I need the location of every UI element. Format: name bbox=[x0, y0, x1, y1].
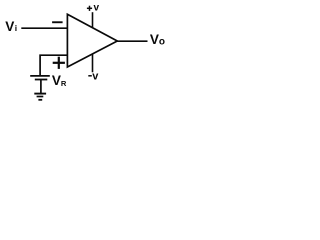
ground symbol bbox=[34, 93, 46, 95]
wire battery to ground bbox=[40, 80, 42, 94]
label -v bbox=[88, 75, 92, 77]
svg-text:o: o bbox=[159, 36, 165, 47]
battery VR top plate bbox=[30, 75, 50, 77]
plus sign noninverting marker bbox=[53, 62, 65, 64]
svg-text:V: V bbox=[150, 32, 159, 47]
label +v bbox=[87, 7, 92, 9]
svg-text:v: v bbox=[94, 2, 100, 13]
svg-text:i: i bbox=[15, 23, 17, 33]
wire noninverting input bbox=[40, 55, 67, 76]
op-amp U1 triangle bbox=[67, 14, 117, 67]
+v supply wire bbox=[92, 12, 94, 28]
svg-text:R: R bbox=[61, 79, 67, 88]
svg-text:v: v bbox=[92, 71, 99, 83]
svg-text:V: V bbox=[52, 73, 61, 88]
wire output bbox=[117, 40, 147, 42]
battery VR bottom plate bbox=[35, 79, 48, 81]
wire inverting input bbox=[21, 27, 67, 29]
-v supply wire bbox=[92, 54, 94, 72]
svg-text:V: V bbox=[5, 19, 14, 34]
minus sign inverting input marker bbox=[52, 21, 63, 23]
